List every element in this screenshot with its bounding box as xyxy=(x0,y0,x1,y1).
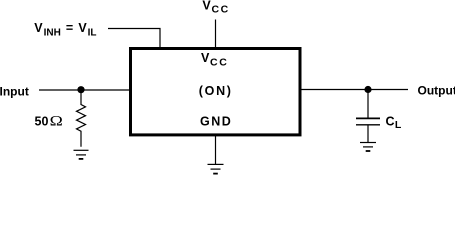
svg-text:CL: CL xyxy=(386,114,402,131)
svg-text:50 Ω: 50 Ω xyxy=(35,113,63,129)
svg-text:VCC: VCC xyxy=(202,0,229,15)
svg-text:GND: GND xyxy=(200,114,232,128)
svg-text:VINH=VIL: VINH=VIL xyxy=(34,21,96,39)
svg-text:(ON): (ON) xyxy=(199,84,233,98)
svg-text:Input: Input xyxy=(0,84,29,98)
svg-text:Output: Output xyxy=(418,84,455,98)
